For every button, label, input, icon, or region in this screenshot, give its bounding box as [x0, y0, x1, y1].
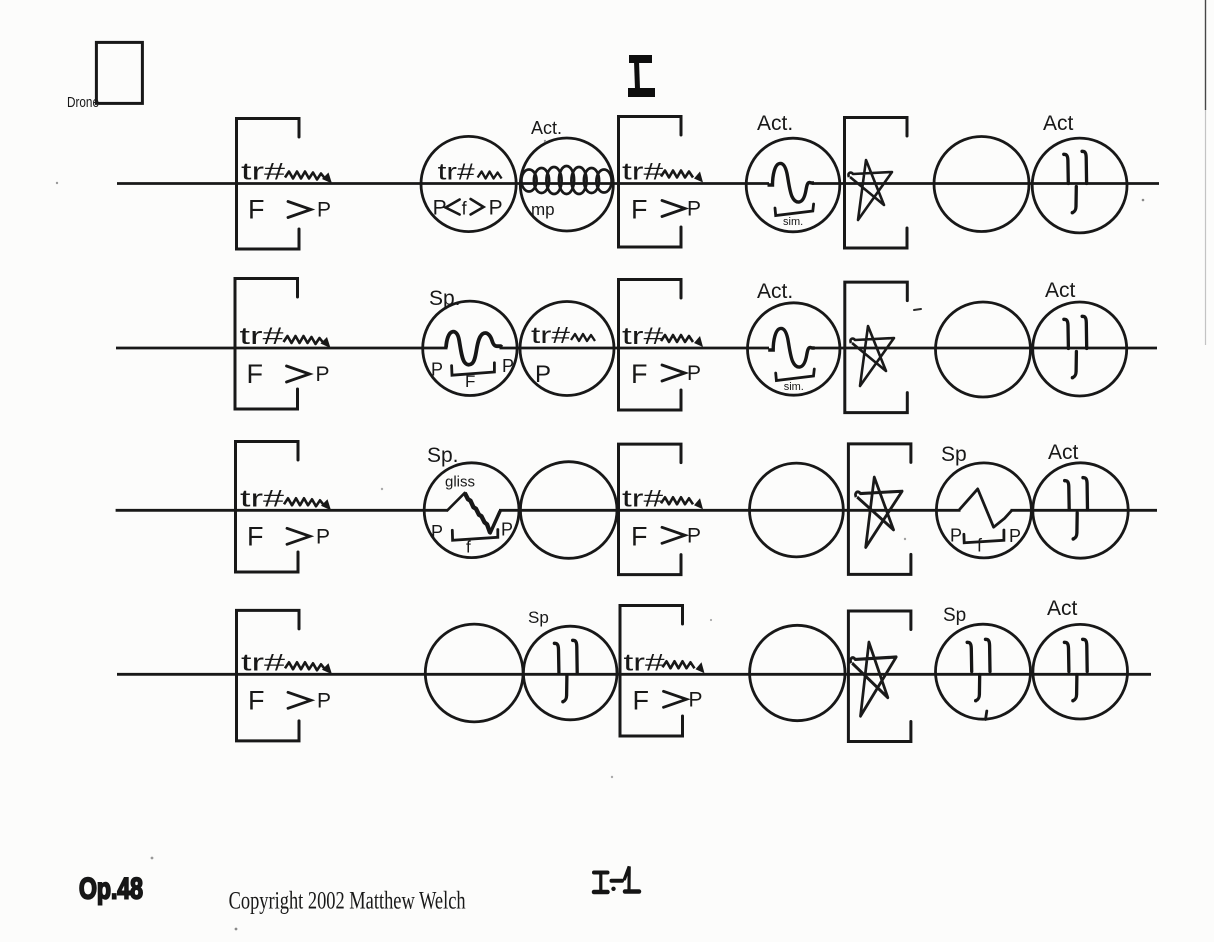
svg-text:Sp: Sp	[943, 605, 966, 626]
svg-text:Act: Act	[1045, 279, 1076, 302]
svg-text:mp: mp	[531, 200, 555, 219]
svg-text:Act.: Act.	[757, 112, 793, 135]
svg-text:P: P	[950, 525, 962, 545]
svg-text:P: P	[502, 356, 514, 376]
svg-text:P: P	[1009, 526, 1021, 546]
svg-text:f: f	[466, 537, 471, 556]
svg-text:Sp: Sp	[941, 443, 967, 466]
svg-text:F: F	[465, 372, 475, 391]
svg-text:Copyright 2002 Matthew Welch: Copyright 2002 Matthew Welch	[229, 888, 466, 915]
svg-text:P: P	[489, 197, 503, 220]
svg-text:Sp.: Sp.	[429, 287, 461, 310]
svg-text:Act.: Act.	[531, 118, 562, 138]
svg-text:Act: Act	[1047, 597, 1078, 620]
svg-text:Sp: Sp	[528, 608, 549, 627]
svg-text:P: P	[535, 361, 551, 388]
svg-text:Sp.: Sp.	[427, 444, 459, 467]
svg-text:Act: Act	[1043, 112, 1074, 135]
svg-text:P: P	[431, 360, 443, 380]
svg-text:P: P	[501, 519, 513, 539]
svg-text:tr#: tr#	[438, 159, 475, 185]
svg-text:P: P	[431, 522, 443, 542]
svg-text:Act.: Act.	[757, 280, 793, 303]
svg-text:gliss: gliss	[445, 473, 475, 490]
svg-text:Act: Act	[1048, 441, 1079, 464]
svg-text:Drone: Drone	[67, 95, 99, 111]
svg-text:Op.48: Op.48	[79, 873, 143, 906]
svg-text:tr#: tr#	[531, 322, 570, 348]
